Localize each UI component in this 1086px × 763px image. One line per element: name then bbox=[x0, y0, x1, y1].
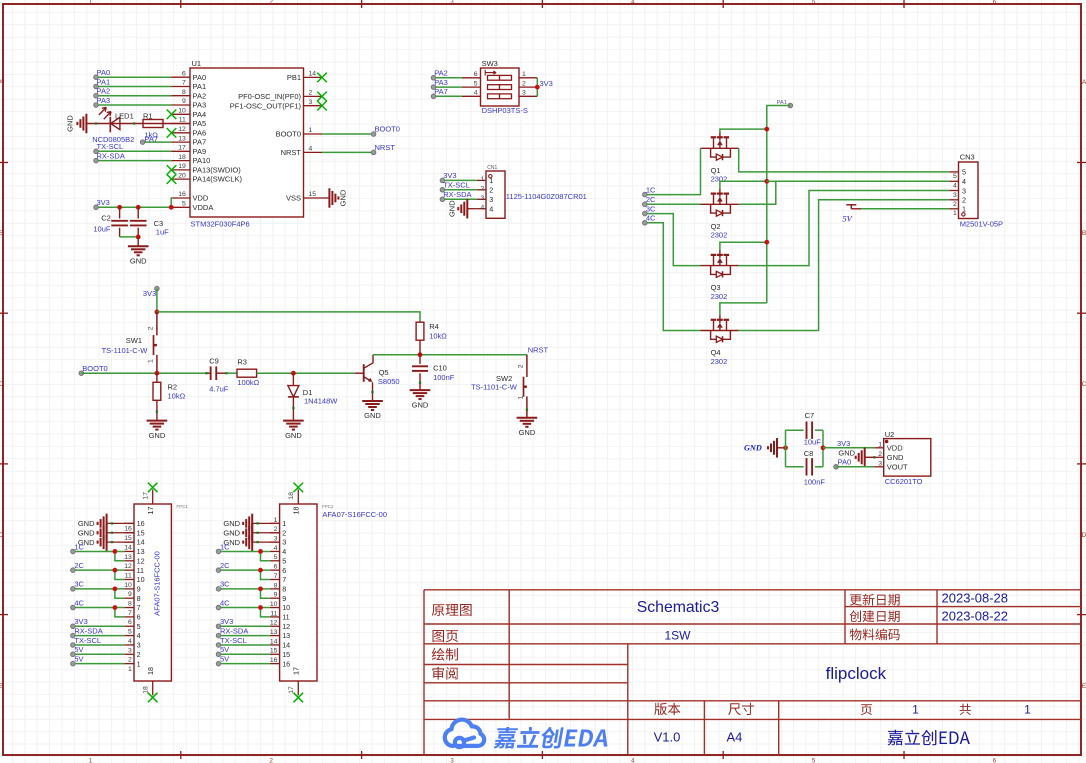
svg-text:PA10: PA10 bbox=[193, 156, 211, 165]
wire Q3 source to CN3 pin3 bbox=[739, 191, 950, 266]
U1 right pin names bbox=[230, 73, 302, 203]
svg-text:1: 1 bbox=[481, 176, 485, 183]
wire GND-LED1-R1-U1.PA5 row bbox=[86, 123, 190, 125]
ground below C2 C3 bbox=[128, 246, 149, 265]
svg-text:PA0: PA0 bbox=[838, 457, 852, 466]
junction dot NRST R4 bbox=[418, 352, 423, 357]
svg-text:PA0: PA0 bbox=[97, 68, 111, 77]
svg-text:3: 3 bbox=[953, 192, 957, 199]
svg-text:9: 9 bbox=[182, 98, 186, 105]
svg-text:1: 1 bbox=[1024, 703, 1031, 717]
svg-text:RX-SDA: RX-SDA bbox=[443, 190, 471, 199]
svg-text:9: 9 bbox=[282, 594, 286, 603]
svg-text:2: 2 bbox=[481, 186, 485, 193]
wire 5V to CN3 pin1 bbox=[851, 208, 949, 210]
svg-text:1uF: 1uF bbox=[156, 227, 169, 236]
wire net PA1 trunk bbox=[767, 106, 791, 303]
svg-text:14: 14 bbox=[124, 544, 132, 551]
wire net 1C to FPC1 bbox=[73, 551, 124, 560]
wire net NRST from U1 pin4 bbox=[322, 151, 374, 153]
svg-text:16: 16 bbox=[178, 191, 186, 198]
svg-text:SW1: SW1 bbox=[126, 336, 142, 345]
svg-text:11: 11 bbox=[125, 572, 132, 579]
svg-text:2C: 2C bbox=[220, 561, 230, 570]
SW3 right pin stubs bbox=[519, 78, 537, 97]
svg-text:9: 9 bbox=[274, 592, 278, 599]
wire net PA1 to U1 bbox=[96, 86, 172, 88]
svg-text:1: 1 bbox=[137, 659, 141, 668]
ground flag at LED1 bbox=[65, 114, 86, 134]
svg-text:15: 15 bbox=[124, 535, 132, 542]
net flag BOOT0 at U1 bbox=[371, 125, 400, 137]
net flag 5V at FPC2 pin bbox=[216, 645, 229, 657]
svg-text:RX-SDA: RX-SDA bbox=[220, 626, 248, 635]
svg-text:GND: GND bbox=[364, 411, 381, 420]
IC U2 CC6201TO bbox=[884, 430, 931, 486]
svg-text:10: 10 bbox=[270, 601, 278, 608]
svg-text:PA2: PA2 bbox=[97, 87, 111, 96]
svg-text:2: 2 bbox=[282, 528, 286, 537]
net flag PA3 at SW3 bbox=[431, 78, 448, 89]
ground below Q5 bbox=[362, 401, 383, 420]
svg-text:10: 10 bbox=[137, 575, 145, 584]
svg-text:8: 8 bbox=[137, 594, 141, 603]
wire net 5V to FPC1 bbox=[73, 663, 124, 665]
wire net 4C to FPC1 bbox=[73, 608, 124, 617]
net flag 5V at FPC1 pin bbox=[71, 645, 84, 657]
net flag RX-SDA bbox=[94, 151, 125, 163]
no-connect X on U1 pins PB1 PF0 PF1 bbox=[317, 73, 327, 111]
svg-text:PA4: PA4 bbox=[193, 110, 207, 119]
junction dot C3 bottom bbox=[136, 235, 141, 240]
FPC1 outside pin numbers bbox=[124, 526, 132, 673]
no-connect X FPC1 bottom bbox=[148, 693, 158, 703]
svg-text:17: 17 bbox=[143, 492, 150, 500]
svg-text:D: D bbox=[0, 532, 4, 539]
svg-text:M2501V-05P: M2501V-05P bbox=[960, 220, 1003, 229]
svg-text:3: 3 bbox=[309, 99, 313, 106]
net flag PA0 at U2 bbox=[834, 457, 852, 469]
wire net 5V to FPC2 bbox=[219, 653, 270, 655]
svg-text:GND: GND bbox=[338, 189, 347, 206]
net flag PA2 bbox=[94, 87, 110, 98]
svg-text:17: 17 bbox=[292, 667, 301, 675]
wire 3V3 to U2 VDD bbox=[823, 447, 874, 449]
svg-text:12: 12 bbox=[282, 622, 290, 631]
wire net RX-SDA to FPC1 bbox=[73, 635, 124, 637]
wire Q1 source to CN3 pin5 bbox=[739, 148, 950, 172]
net flag 3V3 at FPC1 pin bbox=[71, 617, 88, 629]
wire net 3V3 to FPC2 bbox=[219, 625, 270, 627]
wire net 2C to Q2 gate bbox=[645, 203, 701, 205]
svg-text:1: 1 bbox=[522, 71, 526, 78]
svg-text:13: 13 bbox=[282, 631, 290, 640]
svg-text:6: 6 bbox=[282, 566, 286, 575]
wire net PA7 to U1 bbox=[143, 141, 172, 143]
net flag TX-SCL at CN1 bbox=[440, 181, 470, 193]
net flag 4C at FPC1 bbox=[71, 598, 85, 610]
svg-text:4: 4 bbox=[137, 631, 141, 640]
svg-text:7: 7 bbox=[274, 573, 278, 580]
svg-text:8: 8 bbox=[128, 601, 132, 608]
svg-text:VOUT: VOUT bbox=[887, 463, 908, 472]
svg-text:GND: GND bbox=[130, 257, 147, 266]
svg-text:1: 1 bbox=[282, 519, 286, 528]
svg-text:10kΩ: 10kΩ bbox=[429, 331, 447, 340]
resistor R1 1k bbox=[143, 111, 163, 139]
FPC2 bottom pin 17 bbox=[288, 667, 301, 695]
connector FPC2 AFA07-S16FCC-00 body bbox=[280, 504, 334, 681]
svg-text:BOOT0: BOOT0 bbox=[375, 125, 400, 134]
svg-text:8: 8 bbox=[282, 584, 286, 593]
wire net PA0 to U1 bbox=[96, 76, 172, 78]
svg-text:PA3: PA3 bbox=[193, 101, 207, 110]
svg-text:GND: GND bbox=[149, 431, 166, 440]
svg-text:1: 1 bbox=[962, 205, 966, 214]
FPC1 inside pin numbers bbox=[137, 519, 145, 668]
resistor R3 100k bbox=[237, 358, 260, 387]
svg-text:1: 1 bbox=[489, 176, 493, 185]
svg-text:GND: GND bbox=[887, 453, 904, 462]
svg-text:BOOT0: BOOT0 bbox=[82, 364, 107, 373]
svg-text:PA2: PA2 bbox=[193, 91, 207, 100]
svg-text:100kΩ: 100kΩ bbox=[237, 378, 259, 387]
svg-text:PA3: PA3 bbox=[434, 78, 448, 87]
wire net 4C to FPC2 bbox=[219, 608, 270, 617]
net flag 2C at FPC2 bbox=[216, 561, 230, 573]
wire Q4 drain elbow bbox=[720, 303, 767, 316]
svg-text:PA3: PA3 bbox=[97, 96, 111, 105]
svg-text:1125-1104G0Z087CR01: 1125-1104G0Z087CR01 bbox=[506, 192, 587, 201]
svg-text:TX-SCL: TX-SCL bbox=[443, 181, 470, 190]
svg-text:4C: 4C bbox=[74, 598, 84, 607]
svg-text:Q5: Q5 bbox=[379, 368, 389, 377]
svg-text:16: 16 bbox=[137, 519, 145, 528]
svg-text:7: 7 bbox=[282, 575, 286, 584]
FPC2 inside pin numbers bbox=[282, 519, 290, 668]
U1 right pin stubs bbox=[304, 77, 323, 198]
svg-text:2: 2 bbox=[148, 326, 155, 330]
ground at CN1 pin4 bbox=[447, 199, 476, 219]
ground below SW2 bbox=[517, 418, 538, 437]
svg-text:2: 2 bbox=[962, 196, 966, 205]
svg-text:11: 11 bbox=[179, 117, 186, 124]
svg-text:3C: 3C bbox=[646, 204, 656, 213]
svg-text:Q2: Q2 bbox=[711, 222, 721, 231]
junction dots on 3V3 rail bbox=[117, 205, 173, 210]
FPC2 pin stubs bbox=[270, 523, 280, 663]
wire net RX-SDA to CN1 bbox=[442, 198, 476, 200]
wire net 3C to FPC2 bbox=[219, 589, 270, 598]
svg-text:2: 2 bbox=[137, 650, 141, 659]
svg-text:7: 7 bbox=[137, 603, 141, 612]
wire stub trunk to pin4 row bbox=[767, 180, 776, 182]
svg-text:10: 10 bbox=[124, 582, 132, 589]
svg-text:A4: A4 bbox=[726, 730, 742, 745]
svg-text:D: D bbox=[1082, 532, 1086, 539]
connector CN3 M2501V-05P bbox=[959, 153, 1004, 229]
wire net 3V3 to FPC1 bbox=[73, 625, 124, 627]
svg-text:5: 5 bbox=[137, 622, 141, 631]
svg-text:17: 17 bbox=[146, 507, 155, 515]
svg-text:PA14(SWCLK): PA14(SWCLK) bbox=[193, 175, 243, 184]
svg-text:3: 3 bbox=[522, 90, 526, 97]
svg-text:3: 3 bbox=[878, 461, 882, 468]
U2 pin names bbox=[887, 444, 908, 472]
svg-text:Schematic3: Schematic3 bbox=[637, 599, 720, 616]
net flag PA1 bbox=[777, 100, 793, 108]
junction dot 3V3 rail left bbox=[155, 310, 160, 315]
wire Q2 source to CN3 pin4 bbox=[739, 181, 950, 204]
wire net PA2 to U1 bbox=[96, 95, 172, 97]
U1 left pin numbers bbox=[178, 70, 186, 207]
svg-text:1: 1 bbox=[148, 359, 155, 363]
junction dot SW3 pin2 bbox=[535, 85, 540, 90]
no-connect X FPC2 top bbox=[294, 483, 304, 493]
net flag 2C at FPC1 bbox=[71, 561, 85, 573]
svg-text:18: 18 bbox=[146, 667, 155, 675]
svg-text:3: 3 bbox=[489, 195, 493, 204]
wire net 5V to FPC1 bbox=[73, 653, 124, 655]
svg-text:PA7: PA7 bbox=[434, 87, 448, 96]
svg-text:2302: 2302 bbox=[711, 357, 728, 366]
svg-text:C10: C10 bbox=[433, 363, 447, 372]
svg-text:A: A bbox=[1082, 79, 1086, 86]
svg-text:1: 1 bbox=[518, 395, 525, 399]
net flag TX-SCL bbox=[94, 142, 123, 154]
junction dot 4C FPC2 bbox=[258, 605, 263, 610]
wire net 3V3 rail to U1 VDDA bbox=[96, 206, 172, 208]
svg-text:8: 8 bbox=[182, 89, 186, 96]
svg-text:flipclock: flipclock bbox=[826, 664, 887, 683]
wire net 1C to FPC2 bbox=[219, 551, 270, 560]
CN1 outside pin numbers bbox=[481, 176, 485, 211]
svg-text:17: 17 bbox=[178, 145, 186, 152]
svg-text:C9: C9 bbox=[209, 357, 219, 366]
wire PA0 to U2 VOUT bbox=[836, 466, 874, 468]
svg-text:VDDA: VDDA bbox=[193, 203, 214, 212]
svg-text:R2: R2 bbox=[168, 383, 178, 392]
svg-text:GND: GND bbox=[78, 519, 95, 528]
U1 right pin numbers bbox=[309, 71, 317, 199]
net flag 3V3 at U1 bbox=[94, 198, 110, 210]
ground symbol at C7 C8 bbox=[768, 438, 786, 458]
svg-text:4: 4 bbox=[274, 545, 278, 552]
svg-text:9: 9 bbox=[128, 591, 132, 598]
svg-text:10uF: 10uF bbox=[93, 224, 111, 233]
svg-text:DSHP03TS-S: DSHP03TS-S bbox=[482, 106, 528, 115]
svg-text:1N4148W: 1N4148W bbox=[304, 397, 338, 406]
svg-text:12: 12 bbox=[124, 563, 132, 570]
net flag TX-SCL at FPC2 pin bbox=[216, 636, 246, 648]
svg-text:18: 18 bbox=[288, 492, 295, 500]
svg-text:5: 5 bbox=[182, 201, 186, 208]
svg-text:4C: 4C bbox=[646, 214, 656, 223]
FPC2 outside pin numbers bbox=[270, 517, 278, 664]
connector FPC1 AFA07-S16FCC-00 body bbox=[134, 504, 188, 681]
svg-text:C7: C7 bbox=[805, 411, 815, 420]
svg-text:13: 13 bbox=[124, 554, 132, 561]
svg-text:6: 6 bbox=[274, 564, 278, 571]
svg-text:3V3: 3V3 bbox=[837, 439, 850, 448]
svg-text:PA7: PA7 bbox=[144, 134, 158, 143]
svg-text:NRST: NRST bbox=[375, 143, 396, 152]
svg-text:C8: C8 bbox=[804, 449, 814, 458]
wire net PA3 to U1 bbox=[96, 104, 172, 106]
svg-text:7: 7 bbox=[128, 610, 132, 617]
junction dot BOOT0 SW1 bbox=[155, 371, 160, 376]
connector CN1 1125-1104G0Z087CR01 bbox=[486, 165, 587, 218]
wire Q2 drain elbow bbox=[720, 181, 767, 189]
net flag RX-SDA at FPC2 pin bbox=[216, 626, 248, 637]
wire net BOOT0 from U1 pin1 bbox=[322, 133, 374, 135]
junction dot 3C FPC2 bbox=[258, 586, 263, 591]
svg-text:TX-SCL: TX-SCL bbox=[97, 142, 124, 151]
svg-text:BOOT0: BOOT0 bbox=[276, 130, 301, 139]
svg-text:10: 10 bbox=[178, 108, 186, 115]
svg-text:1C: 1C bbox=[646, 185, 656, 194]
svg-text:Q3: Q3 bbox=[711, 283, 721, 292]
svg-text:4.7uF: 4.7uF bbox=[209, 385, 229, 394]
svg-text:PA9: PA9 bbox=[193, 147, 207, 156]
svg-text:1: 1 bbox=[309, 127, 313, 134]
wire net PA3 to SW3 bbox=[434, 86, 462, 88]
svg-text:5: 5 bbox=[282, 556, 286, 565]
svg-text:2: 2 bbox=[309, 90, 313, 97]
svg-text:3C: 3C bbox=[74, 580, 84, 589]
wire C7 C8 loop left side bbox=[785, 430, 787, 467]
svg-text:PF1-OSC_OUT(PF1): PF1-OSC_OUT(PF1) bbox=[230, 101, 302, 110]
svg-text:5V: 5V bbox=[220, 645, 229, 654]
net flag 3V3 above SW1 bbox=[143, 286, 159, 298]
svg-text:12: 12 bbox=[178, 126, 186, 133]
wire Q4 source to CN3 pin2 bbox=[739, 200, 950, 331]
capacitor C3 1uF bbox=[130, 207, 169, 237]
wire net 4C to Q4 gate bbox=[645, 223, 701, 331]
wire net 1C to Q1 gate bbox=[645, 148, 701, 194]
svg-text:CN3: CN3 bbox=[960, 153, 975, 162]
svg-text:VSS: VSS bbox=[286, 194, 301, 203]
wire U1 VDD drop bbox=[170, 198, 172, 207]
wire C9 to R3 bbox=[227, 372, 237, 374]
resistor R4 10k bbox=[416, 322, 447, 355]
LED LED1 NCD0805B2 bbox=[92, 107, 134, 144]
svg-text:GND: GND bbox=[447, 200, 456, 217]
svg-text:16: 16 bbox=[282, 659, 290, 668]
capacitor C10 100nF bbox=[412, 355, 455, 390]
svg-text:5: 5 bbox=[953, 173, 957, 180]
junction dot 2C FPC1 bbox=[113, 568, 118, 573]
svg-text:6: 6 bbox=[474, 71, 478, 78]
U1 left pin stubs bbox=[172, 77, 191, 207]
net flag 1C at FPC1 bbox=[71, 542, 85, 554]
svg-text:18: 18 bbox=[178, 154, 186, 161]
FPC1 top pin 17 bbox=[143, 489, 156, 514]
svg-text:4: 4 bbox=[489, 205, 493, 214]
svg-text:2: 2 bbox=[518, 364, 525, 368]
svg-text:20: 20 bbox=[178, 172, 186, 179]
svg-text:R1: R1 bbox=[143, 111, 153, 120]
U2 pin numbers bbox=[878, 442, 882, 468]
net flag RX-SDA at FPC1 pin bbox=[71, 626, 103, 637]
svg-text:2302: 2302 bbox=[711, 231, 728, 240]
wire net 3C to Q3 gate bbox=[645, 214, 701, 266]
svg-text:1C: 1C bbox=[220, 542, 230, 551]
wire 3V3 tie on SW3 pins 1-3 bbox=[536, 78, 538, 97]
U1 left pin names bbox=[193, 73, 243, 212]
junction dot 3C FPC1 bbox=[113, 586, 118, 591]
wire net 3V3 to CN1 bbox=[442, 179, 476, 181]
junction dot 2C FPC2 bbox=[258, 568, 263, 573]
wire to ground below C3 bbox=[137, 237, 139, 246]
svg-text:4: 4 bbox=[953, 183, 957, 190]
svg-text:CC6201TO: CC6201TO bbox=[885, 477, 923, 486]
svg-text:2: 2 bbox=[878, 451, 882, 458]
svg-text:2C: 2C bbox=[74, 561, 84, 570]
U2 pin stubs bbox=[874, 448, 883, 467]
svg-text:2302: 2302 bbox=[711, 175, 728, 184]
svg-text:RX-SDA: RX-SDA bbox=[97, 151, 125, 160]
svg-text:STM32F030F4P6: STM32F030F4P6 bbox=[191, 220, 250, 229]
svg-text:PF0-OSC_IN(PF0): PF0-OSC_IN(PF0) bbox=[238, 92, 301, 101]
svg-text:RX-SDA: RX-SDA bbox=[74, 626, 102, 635]
svg-text:R3: R3 bbox=[237, 358, 247, 367]
capacitor C2 10uF bbox=[93, 207, 128, 237]
net flag RX-SDA at CN1 bbox=[440, 190, 471, 202]
CN1 inside pin numbers bbox=[489, 176, 493, 213]
FPC1 pin stubs bbox=[124, 523, 134, 663]
svg-text:GND: GND bbox=[744, 443, 762, 452]
net flag 3V3 at FPC2 pin bbox=[216, 617, 233, 629]
svg-text:B: B bbox=[1082, 230, 1086, 237]
SW3 left pin stubs bbox=[462, 78, 481, 97]
svg-text:13: 13 bbox=[137, 547, 145, 556]
svg-text:3V3: 3V3 bbox=[220, 617, 233, 626]
svg-text:B: B bbox=[0, 230, 3, 237]
svg-text:U1: U1 bbox=[192, 59, 202, 68]
ground pins at FPC2 bbox=[223, 514, 279, 552]
wire net NRST row bbox=[373, 354, 527, 356]
svg-text:CN1: CN1 bbox=[487, 165, 497, 171]
wire net TX-SCL to FPC1 bbox=[73, 644, 124, 646]
svg-text:AFA07-S16FCC-00: AFA07-S16FCC-00 bbox=[322, 510, 387, 519]
net flag PA0 bbox=[94, 68, 110, 79]
no-connect X FPC2 bottom bbox=[294, 693, 304, 703]
net flag 3C bbox=[643, 204, 657, 216]
net flag 3V3 at CN1 bbox=[440, 171, 456, 183]
wire net PA2 to SW3 bbox=[434, 77, 462, 79]
svg-text:3C: 3C bbox=[220, 580, 230, 589]
svg-text:U2: U2 bbox=[885, 430, 895, 439]
switch SW2 TS-1101-C-W bbox=[471, 355, 528, 418]
svg-text:5V: 5V bbox=[220, 654, 229, 663]
svg-text:GND: GND bbox=[223, 529, 240, 538]
svg-text:19: 19 bbox=[178, 163, 186, 170]
svg-text:3V3: 3V3 bbox=[74, 617, 87, 626]
svg-text:PA6: PA6 bbox=[193, 128, 207, 137]
svg-text:10kΩ: 10kΩ bbox=[168, 392, 186, 401]
wire net 3C to FPC1 bbox=[73, 589, 124, 598]
svg-text:11: 11 bbox=[282, 613, 289, 622]
transistor Q2 2302 bbox=[701, 189, 739, 240]
wire Q3 drain elbow bbox=[720, 242, 767, 251]
svg-text:5: 5 bbox=[474, 80, 478, 87]
ground at U1 VSS bbox=[322, 188, 347, 208]
net flag 3C at FPC2 bbox=[216, 580, 230, 591]
svg-text:12: 12 bbox=[137, 556, 145, 565]
svg-text:2: 2 bbox=[522, 80, 526, 87]
svg-text:TX-SCL: TX-SCL bbox=[220, 636, 247, 645]
